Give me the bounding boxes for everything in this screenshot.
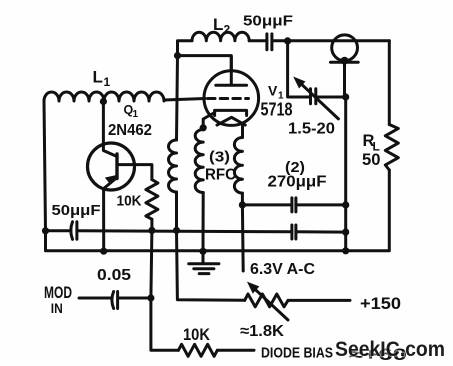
cathode lead to node — [203, 113, 214, 128]
resistor 10K (base) — [146, 180, 158, 220]
resistor 10K (diode bias) — [178, 344, 217, 356]
Q1 base bar — [115, 154, 118, 179]
label Q1 — [124, 103, 139, 120]
svg-text:SeekIC.com: SeekIC.com — [335, 338, 445, 361]
svg-text:1: 1 — [133, 109, 139, 120]
node dot RFC3 bottom — [239, 201, 246, 208]
wire 270uuF upper — [242, 203, 345, 206]
V1 heater right lead — [241, 125, 244, 137]
svg-text:RFC: RFC — [205, 167, 236, 184]
RFC3 lead to node — [241, 193, 244, 205]
node dot left rail/wire-1 — [42, 227, 49, 234]
inductor L2 — [192, 32, 249, 41]
svg-text:50: 50 — [362, 150, 381, 169]
svg-text:DIODE BIAS: DIODE BIAS — [261, 345, 333, 362]
Q1 base lead to 10K — [117, 165, 152, 180]
L1 tap node dot — [100, 98, 107, 105]
Q1 emitter lead down to bus — [102, 189, 105, 252]
svg-text:10K: 10K — [183, 325, 211, 344]
node dot cathode/RFC2 — [200, 124, 207, 131]
vertical x=151 from wire-1 down to diode bias line — [151, 230, 179, 350]
svg-text:50μμF: 50μμF — [243, 13, 293, 30]
svg-text:V: V — [268, 83, 278, 99]
svg-text:2N462: 2N462 — [108, 122, 152, 139]
node dot ground/bus — [199, 248, 206, 255]
arrow of variable capacitor 1.5-20 — [297, 80, 338, 119]
wire-1 long horizontal with 50uuF and 270uuF lower — [46, 231, 346, 232]
RFC2 lead down to bus — [202, 193, 205, 252]
resistor RL 50 — [385, 125, 398, 171]
RFC coil 1 — [169, 140, 177, 192]
V1 grid (dashed) — [208, 97, 249, 100]
V1 heater — [217, 117, 245, 125]
wire L1 tap to Q1 collector — [102, 102, 105, 145]
wire 0.05 to junction — [118, 297, 151, 300]
svg-text:IN: IN — [51, 300, 63, 316]
svg-text:2: 2 — [224, 23, 231, 37]
pot arrow — [251, 286, 288, 321]
MOD IN wire — [79, 297, 111, 300]
svg-text:10K: 10K — [117, 193, 142, 210]
wire 10K to DIODE BIAS — [217, 349, 254, 352]
inductor L1 — [44, 92, 164, 101]
label RL — [363, 132, 380, 154]
transistor Q1 circle — [88, 143, 135, 190]
Q1 emitter — [104, 178, 117, 189]
capacitor 270uuF lower plates — [292, 225, 296, 239]
lamp bottom bar — [331, 61, 359, 64]
label L2 — [213, 15, 231, 37]
vertical rail x=177 down to RFC1 — [177, 56, 178, 140]
potentiometer 1.8K zigzag — [245, 294, 288, 307]
node dot at 288,41 — [284, 37, 291, 44]
wire top-left corner to L2 — [178, 41, 193, 57]
V1 plate — [216, 57, 247, 85]
grid wire from L1 to tube — [164, 99, 205, 101]
label L1 — [93, 68, 111, 90]
label MOD IN — [44, 283, 72, 316]
wire L2 to capacitor — [249, 39, 267, 42]
vertical rail x=288 down from top node — [288, 41, 309, 97]
svg-text:1: 1 — [104, 75, 111, 89]
RFC coil 2 — [195, 130, 203, 193]
capacitor 0.05 plates — [112, 292, 118, 309]
V1 cathode bracket — [215, 110, 247, 115]
pot right wire to +150 — [288, 299, 350, 302]
svg-text:50μμF: 50μμF — [52, 202, 101, 219]
node dot at 345.7,232.1 — [342, 229, 349, 236]
node dot at 345.7,204.9 — [342, 201, 349, 208]
node dot RFC1 bottom — [173, 227, 180, 234]
variable capacitor 1.5-20 plates — [311, 89, 316, 104]
lamp/indicator circle — [332, 35, 358, 61]
left rail from L1 down — [44, 101, 46, 231]
vertical rail x=345.7 down to bus — [344, 97, 347, 251]
svg-text:≈1.8K: ≈1.8K — [240, 323, 285, 340]
bus wire (long bottom horizontal) — [46, 231, 390, 251]
svg-text:0.05: 0.05 — [97, 267, 131, 284]
wire 1.5-20 to node — [316, 96, 346, 99]
wire plate branch — [178, 56, 232, 86]
RFC coil 3 — [234, 138, 242, 194]
node dot at lamp bottom — [341, 57, 349, 65]
watermark SeekIC.com — [335, 338, 445, 361]
triode V1 envelope — [204, 71, 259, 126]
10K lead to wire-1 — [150, 219, 153, 230]
svg-text:1.5-20: 1.5-20 — [288, 120, 335, 137]
node dot at plate branch — [174, 52, 181, 59]
svg-text:5718: 5718 — [261, 100, 293, 120]
wire capacitor through lamp to right rail corner — [272, 39, 389, 42]
node dot 10K bottom — [148, 227, 155, 234]
right rail top: corner down to RL — [388, 41, 391, 125]
Q1 emitter arrow — [105, 175, 117, 185]
capacitor 50uuF (left) plates — [71, 222, 77, 240]
heater supply stub 6.3V — [241, 205, 245, 271]
wire bar down to node — [345, 62, 346, 97]
vertical x=177 from wire-1 down to pot wire — [177, 230, 245, 300]
RFC1 lead to wire-1 — [175, 192, 178, 230]
svg-text:(3): (3) — [209, 149, 230, 166]
node dot at 345.7,97 — [342, 93, 349, 100]
capacitor 50uuF (top) — [267, 34, 272, 50]
Q1 collector inside — [103, 144, 117, 156]
svg-text:L: L — [93, 68, 103, 87]
label V1 — [268, 83, 284, 102]
ground — [189, 251, 219, 273]
node dot MOD IN junction — [147, 294, 154, 301]
svg-text:270μμF: 270μμF — [268, 174, 327, 191]
wire RL bottom to bus corner — [388, 170, 391, 250]
node dot at 345.7,250.8 — [342, 247, 349, 254]
svg-text:6.3V A-C: 6.3V A-C — [250, 261, 315, 278]
node dot emitter/bus — [100, 248, 107, 255]
capacitor 270uuF upper plates — [292, 198, 296, 212]
svg-text:L: L — [213, 15, 223, 34]
svg-text:+150: +150 — [360, 295, 401, 313]
